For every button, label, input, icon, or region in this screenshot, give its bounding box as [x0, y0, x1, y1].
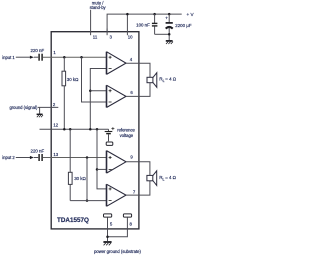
op-amp A4 [107, 184, 127, 206]
svg-text:ground (signal): ground (signal) [9, 105, 38, 110]
node V2-A2+ [89, 89, 92, 92]
node caps-ground [168, 33, 171, 36]
capacitor C4 2200uF electrolytic [168, 14, 170, 23]
substrate tab pin 5 [104, 214, 112, 217]
pin 3 tick [106, 29, 108, 36]
reference line (pin 12) [40, 128, 109, 130]
wire cap bottoms join [155, 33, 170, 35]
svg-text:30 kΩ: 30 kΩ [67, 77, 79, 82]
capacitor C1 220nF [38, 54, 40, 61]
ground symbol top right [166, 40, 173, 42]
node V5-A3- [96, 168, 99, 171]
IC box TDA1557Q [51, 32, 139, 229]
loudspeaker RL1 [147, 73, 157, 88]
capacitor C3 100nF [154, 14, 156, 23]
loudspeaker RL2 [147, 171, 157, 186]
node ref-R2 [69, 128, 72, 131]
svg-text:220 nF: 220 nF [31, 148, 45, 153]
svg-text:input 2: input 2 [2, 155, 15, 160]
wire V4 input2 to A4- node [86, 158, 88, 201]
substrate tab pin 8 [123, 214, 131, 217]
wire pin4 output [126, 63, 150, 77]
svg-text:2200 µF: 2200 µF [175, 23, 192, 28]
svg-text:30 kΩ: 30 kΩ [74, 176, 86, 181]
mute / stand-by input line [90, 10, 92, 35]
wire pin1 to A1+ [43, 56, 107, 58]
svg-text:+ V: + V [187, 12, 195, 17]
wire V1 input1 to A2- [82, 57, 107, 102]
svg-text:11: 11 [93, 35, 98, 40]
node input1-V1 [80, 56, 83, 59]
node ref-V2 [89, 128, 92, 131]
svg-text:100 nF: 100 nF [136, 23, 150, 28]
capacitor C2 220nF [38, 154, 40, 161]
node input1-R1 [63, 56, 66, 59]
svg-text:12: 12 [53, 122, 58, 127]
node ref-R1 [63, 128, 66, 131]
op-amp A3 [107, 151, 127, 174]
resistor R2 30k [69, 129, 71, 172]
ground symbol power [103, 241, 111, 243]
svg-text:+: + [165, 15, 168, 20]
svg-text:power ground (substrate): power ground (substrate) [94, 249, 141, 254]
wire pin7 output [126, 181, 150, 195]
node power ground [106, 236, 109, 239]
op-amp A1 [107, 52, 127, 75]
wire V5 ref to A3- and A4+ [97, 129, 107, 189]
svg-text:stand-by: stand-by [90, 5, 107, 10]
svg-text:= 4 Ω: = 4 Ω [165, 77, 176, 82]
supply rail +V [107, 14, 182, 32]
input 1 wire with arrow [16, 56, 30, 58]
node ref-V5 [96, 128, 99, 131]
node V4-A4- [86, 199, 89, 202]
wire A1- to V2 [90, 69, 106, 130]
wire pin6 output [126, 83, 150, 97]
node rail-2200uF [168, 13, 171, 16]
ground symbol signal [39, 107, 41, 114]
svg-text:L: L [163, 79, 165, 83]
wire V5 to A3- [97, 168, 107, 170]
wire pin13 to A3+ [43, 157, 107, 159]
wire pin9 output [126, 162, 150, 176]
node rail-pin10 [126, 13, 128, 16]
svg-text:input 1: input 1 [2, 55, 15, 60]
svg-text:= 4 Ω: = 4 Ω [165, 175, 176, 180]
wire V2 to A2+ [90, 90, 106, 92]
svg-text:10: 10 [128, 35, 133, 40]
input 2 wire with arrow [16, 157, 30, 159]
wire R2 bottom to A4- [70, 200, 106, 202]
svg-text:TDA1557Q: TDA1557Q [57, 217, 89, 224]
node rail-100nF [153, 13, 156, 16]
svg-text:220 nF: 220 nF [31, 48, 45, 53]
svg-text:L: L [163, 178, 165, 182]
wire pin 2 [38, 106, 58, 108]
svg-text:13: 13 [53, 152, 58, 157]
wire pin10 to rail [126, 14, 128, 35]
resistor R1 30k [63, 57, 65, 71]
svg-text:voltage: voltage [120, 133, 134, 138]
op-amp A2 [107, 85, 127, 107]
reference voltage source [108, 129, 110, 131]
node input2-V4 [86, 156, 89, 159]
